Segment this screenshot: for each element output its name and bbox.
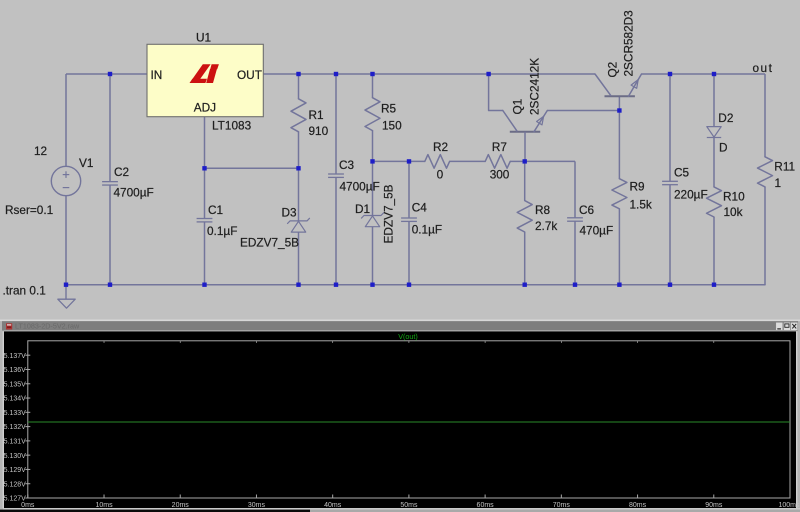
window bottom edge line [3, 508, 800, 510]
junction top rail x=714 [712, 72, 716, 76]
junction top rail x=488.6 [486, 72, 490, 76]
y axis ticks [25, 355, 30, 498]
svg-text:30ms: 30ms [248, 502, 266, 509]
junction bottom rail x=298.5 [296, 283, 300, 287]
label R8 [535, 203, 551, 217]
wire C1 upper [204, 168, 206, 218]
junction top rail x=298.5 [296, 72, 300, 76]
svg-text:IN: IN [151, 68, 163, 82]
label R9 [630, 180, 645, 194]
capacitor C5 [662, 181, 678, 184]
resistor R7 [485, 155, 510, 169]
svg-text:5.137V: 5.137V [4, 353, 27, 360]
value 0.1µF C4 [412, 223, 442, 237]
junction bottom rail x=372.5 [370, 283, 374, 287]
svg-text:5.135V: 5.135V [4, 381, 27, 388]
svg-text:100ms: 100ms [778, 502, 800, 509]
svg-text:300: 300 [490, 167, 510, 181]
wire C2 upper [109, 74, 111, 181]
label R7 [492, 140, 507, 154]
pin IN [151, 68, 163, 82]
value 910 [309, 124, 329, 138]
svg-text:C6: C6 [579, 203, 595, 217]
wire ground rail [66, 284, 765, 286]
wire R1 top lead [298, 74, 300, 99]
wire C3 lower [335, 177, 337, 284]
wire C5 upper [669, 74, 671, 181]
label Rser=0.1 [5, 203, 53, 217]
value EDZV7_5B D1 [382, 184, 396, 243]
junction bottom rail x=524.7 [523, 283, 527, 287]
junction bottom rail x=409 [407, 283, 411, 287]
voltage source V1 [51, 166, 80, 195]
svg-text:0: 0 [437, 167, 444, 181]
capacitor C1 [197, 219, 213, 222]
plot box [28, 341, 790, 498]
wire R11 bottom lead [764, 187, 766, 285]
wire OUT rail [263, 73, 595, 75]
LT logo [190, 64, 219, 83]
titlebar bottom edge [4, 330, 796, 333]
svg-text:60ms: 60ms [477, 502, 495, 509]
junction bottom rail x=204.5 [202, 283, 206, 287]
svg-text:ADJ: ADJ [194, 101, 216, 115]
wire R8 bottom lead [524, 232, 526, 285]
svg-text:4700µF: 4700µF [114, 186, 154, 200]
junction bottom rail x=619.4 [617, 283, 621, 287]
label D2 [718, 111, 733, 125]
trace label V(out) [398, 332, 418, 341]
junction row2 x=409 [407, 159, 411, 163]
svg-text:2.7k: 2.7k [535, 219, 557, 233]
junction row2 x=372.5 [370, 159, 374, 163]
wire ADJ pin [204, 117, 206, 169]
svg-text:470µF: 470µF [580, 224, 614, 238]
junction bottom rail x=575 [573, 283, 577, 287]
label R1 [309, 108, 324, 122]
svg-text:0ms: 0ms [21, 502, 35, 509]
svg-text:U1: U1 [196, 31, 211, 45]
junction top rail x=336 [334, 72, 338, 76]
label Q1 [511, 99, 525, 115]
value 1 [775, 176, 782, 190]
svg-text:20ms: 20ms [172, 502, 190, 509]
junction bottom rail x=670 [668, 283, 672, 287]
label R11 [774, 160, 795, 174]
wire R5 top lead [372, 74, 374, 98]
label U1 [196, 31, 211, 45]
window title text [15, 322, 80, 331]
pin OUT [237, 68, 262, 82]
wire R8 top lead [524, 161, 526, 200]
y axis labels 5.137V..5.127V [4, 353, 27, 503]
resistor R11 [758, 157, 773, 187]
wire R9 top lead [618, 111, 620, 179]
svg-text:5.136V: 5.136V [4, 367, 27, 374]
svg-text:Q1: Q1 [511, 99, 525, 115]
svg-text:5.129V: 5.129V [4, 467, 27, 474]
value 470µF [580, 224, 614, 238]
label C1 [208, 203, 223, 217]
svg-text:0.1µF: 0.1µF [412, 223, 442, 237]
label C5 [674, 166, 690, 180]
label R2 [433, 140, 448, 154]
zener D3 [288, 218, 310, 232]
svg-text:5.134V: 5.134V [4, 396, 27, 403]
svg-text:10ms: 10ms [95, 502, 113, 509]
svg-text:.tran 0.1: .tran 0.1 [3, 284, 46, 298]
window title bar [2, 321, 798, 330]
svg-text:150: 150 [382, 118, 402, 132]
wire R10 bottom lead [713, 217, 715, 285]
svg-text:C3: C3 [339, 158, 355, 172]
svg-text:R11: R11 [774, 160, 795, 174]
resistor R5 [365, 98, 380, 131]
svg-text:D: D [719, 141, 728, 155]
svg-text:C2: C2 [114, 165, 129, 179]
resistor R10 [707, 187, 722, 217]
wire C6 lower [574, 221, 576, 285]
resistor R1 [291, 99, 306, 132]
wire R1 bottom lead [298, 132, 300, 169]
wire V1 top [65, 74, 67, 166]
wire D1 top lead [372, 161, 374, 215]
label C4 [412, 201, 428, 215]
svg-text:D3: D3 [282, 206, 298, 220]
wire output rail [642, 73, 766, 75]
label Q2 [606, 62, 620, 78]
svg-text:OUT: OUT [237, 68, 262, 82]
ground symbol [58, 285, 75, 309]
svg-text:Rser=0.1: Rser=0.1 [5, 203, 53, 217]
wire D2-R10 [713, 138, 715, 187]
svg-text:R10: R10 [723, 190, 745, 204]
junction bottom rail x=336 [334, 283, 338, 287]
value 1.5k [630, 198, 652, 212]
junction bottom rail x=66 [64, 283, 68, 287]
label D1 [355, 202, 370, 216]
value 300 [490, 167, 510, 181]
value 4700µF C2 [114, 186, 154, 200]
zener D1 [362, 213, 384, 227]
svg-text:R9: R9 [630, 180, 645, 194]
svg-text:EDZV7_5B: EDZV7_5B [382, 184, 396, 243]
bottom strip dark [0, 510, 310, 512]
wire C4 lower [408, 221, 410, 284]
svg-text:R5: R5 [381, 102, 397, 116]
capacitor C2 [102, 182, 118, 185]
value 4700µF C3 [340, 180, 380, 194]
svg-text:V1: V1 [79, 156, 93, 170]
svg-text:LT1083-2D-5V2.raw: LT1083-2D-5V2.raw [15, 322, 80, 331]
wire C1 lower [204, 222, 206, 285]
value 0 [437, 167, 444, 181]
wire D3 bottom lead [298, 232, 300, 284]
svg-text:R7: R7 [492, 140, 507, 154]
transistor Q2 [595, 74, 642, 96]
junction bottom rail x=110 [108, 283, 112, 287]
capacitor C4 [401, 218, 417, 221]
svg-text:Q2: Q2 [606, 62, 620, 78]
directive .tran 0.1 [3, 284, 46, 298]
wire D3 top lead [298, 168, 300, 221]
svg-text:out: out [753, 61, 774, 75]
value 2SC2412K [528, 58, 542, 115]
resistor R2 [425, 155, 450, 169]
svg-text:C1: C1 [208, 203, 223, 217]
svg-text:D1: D1 [355, 202, 370, 216]
svg-text:R8: R8 [535, 203, 551, 217]
window frame top highlight [0, 320, 800, 322]
junction top rail x=110 [108, 72, 112, 76]
wire input net V1-C2-IN [66, 73, 147, 75]
plot area [4, 331, 796, 508]
wire R5 bottom lead [372, 131, 374, 162]
svg-text:C5: C5 [674, 166, 690, 180]
label C2 [114, 165, 129, 179]
svg-text:EDZV7_5B: EDZV7_5B [240, 236, 299, 250]
value 0.1µF C1 [207, 224, 237, 238]
svg-text:R2: R2 [433, 140, 448, 154]
wire Q2 base pin [618, 96, 620, 110]
svg-text:1.5k: 1.5k [630, 198, 652, 212]
value 2.7k [535, 219, 557, 233]
wire D2 top lead [713, 74, 715, 127]
value 150 [382, 118, 402, 132]
label R5 [381, 102, 397, 116]
junction row2 x=524.7 [523, 159, 527, 163]
junction ADJ row x=204.5 [202, 166, 206, 170]
wire Q1 emitter to Q2 base [547, 110, 619, 112]
value 2SCR582D3 [622, 10, 636, 77]
label R10 [723, 190, 745, 204]
net label out [753, 61, 774, 75]
svg-text:D2: D2 [718, 111, 733, 125]
window icon [6, 323, 12, 329]
junction Q2 base node [617, 108, 621, 112]
svg-text:5.130V: 5.130V [4, 453, 27, 460]
wire C2 lower [109, 185, 111, 284]
wire D1 bottom lead [372, 227, 374, 285]
wire R11 top lead [764, 74, 766, 157]
svg-text:2SCR582D3: 2SCR582D3 [622, 10, 636, 77]
svg-text:80ms: 80ms [629, 502, 647, 509]
capacitor C3 [328, 174, 344, 177]
trace V(out) [28, 421, 790, 423]
svg-text:V(out): V(out) [398, 332, 418, 341]
window buttons [776, 322, 798, 330]
value LT1083 [212, 119, 252, 133]
label C3 [339, 158, 355, 172]
svg-text:70ms: 70ms [553, 502, 571, 509]
transistor Q1 [503, 111, 548, 162]
svg-text:220µF: 220µF [674, 188, 708, 202]
wire R7-node [510, 160, 525, 162]
value EDZV7_5B D3 [240, 236, 299, 250]
wire Q1 collector [489, 74, 503, 111]
wire C5 lower [669, 185, 671, 285]
svg-text:910: 910 [309, 124, 329, 138]
capacitor C6 [567, 218, 583, 221]
svg-text:12: 12 [34, 144, 47, 158]
wire C3 upper [335, 74, 337, 174]
window left inner border [3, 331, 4, 508]
svg-text:C4: C4 [412, 201, 428, 215]
svg-text:50ms: 50ms [400, 502, 418, 509]
label C6 [579, 203, 595, 217]
junction top rail x=372.5 [370, 72, 374, 76]
regulator U1 LT1083 [147, 44, 263, 116]
svg-text:5.132V: 5.132V [4, 424, 27, 431]
x axis ticks [28, 341, 790, 498]
waveform window frame [0, 320, 800, 512]
junction top rail x=670 [668, 72, 672, 76]
value 10k [724, 205, 743, 219]
svg-text:R1: R1 [309, 108, 324, 122]
svg-text:5.131V: 5.131V [4, 438, 27, 445]
value 12 [34, 144, 47, 158]
resistor R8 [517, 201, 532, 232]
resistor R9 [612, 179, 627, 209]
svg-text:2SC2412K: 2SC2412K [528, 58, 542, 115]
wire ADJ row [205, 167, 299, 169]
value D [719, 141, 728, 155]
pin ADJ [194, 101, 216, 115]
x axis labels 0ms..100ms [21, 502, 800, 509]
wire V1 bottom [65, 196, 67, 285]
wire node-C6 [525, 160, 575, 162]
svg-text:5.128V: 5.128V [4, 481, 27, 488]
svg-text:1: 1 [775, 176, 782, 190]
svg-text:5.133V: 5.133V [4, 410, 27, 417]
bottom strip gray [310, 510, 800, 512]
junction ADJ row x=298.5 [296, 166, 300, 170]
window right inner border [796, 331, 797, 508]
value 220µF [674, 188, 708, 202]
schematic background [0, 0, 800, 320]
svg-text:LT1083: LT1083 [212, 119, 252, 133]
label V1 [79, 156, 93, 170]
svg-text:4700µF: 4700µF [340, 180, 380, 194]
wire C6 upper [574, 161, 576, 217]
svg-text:10k: 10k [724, 205, 743, 219]
wire R9 bottom lead [618, 209, 620, 285]
wire R2-R7 [450, 160, 486, 162]
wire row2 R5-R2 [373, 160, 425, 162]
svg-text:40ms: 40ms [324, 502, 342, 509]
junction bottom rail x=714 [712, 283, 716, 287]
svg-text:0.1µF: 0.1µF [207, 224, 237, 238]
svg-text:90ms: 90ms [705, 502, 723, 509]
diode D2 [707, 127, 721, 138]
label D3 [282, 206, 298, 220]
wire C4 upper [408, 161, 410, 218]
